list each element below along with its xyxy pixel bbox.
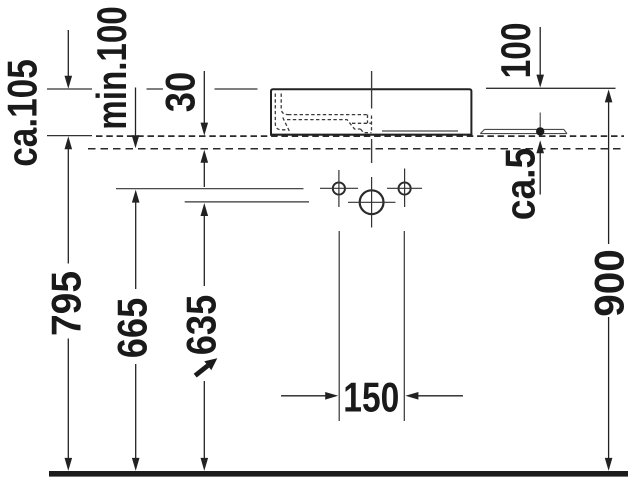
svg-text:min.100: min.100 bbox=[88, 6, 135, 130]
dimension 900: up arrow at rim line bbox=[605, 89, 613, 102]
extension line down to glue point bbox=[539, 113, 541, 128]
drain recess dashed detail bbox=[352, 122, 372, 124]
glued console panel bbox=[480, 129, 567, 133]
dimension 665 lower segment + floor arrow bbox=[135, 364, 137, 468]
small fixing hole left bbox=[333, 182, 345, 194]
floor line bbox=[49, 471, 628, 477]
bowl profile dashed: inner left wall bbox=[275, 94, 286, 130]
svg-text:ca.105: ca.105 bbox=[0, 59, 46, 167]
lower dashed worktop line bbox=[88, 148, 624, 150]
upper dashed worktop line bbox=[96, 135, 624, 137]
dimension ca.5 up arrow bbox=[536, 140, 544, 153]
150 dimension extension line right bbox=[403, 231, 405, 421]
basin back rim thin line bbox=[382, 130, 458, 132]
bowl floor upper dashed line bbox=[288, 114, 368, 116]
tap hole centre (large) bbox=[360, 190, 384, 214]
dimension 635: up arrow at faucet line 2 bbox=[201, 203, 209, 216]
150 right arrow bbox=[416, 395, 463, 397]
dimension ca.105 down arrow bbox=[67, 30, 69, 84]
svg-text:150: 150 bbox=[343, 373, 399, 420]
rim level reference line (left segments) bbox=[47, 88, 258, 90]
washbasin bottom edge bbox=[270, 134, 472, 136]
faucet holes reference line 2 bbox=[185, 201, 309, 203]
svg-text:795: 795 bbox=[43, 271, 90, 336]
svg-text:665: 665 bbox=[109, 298, 156, 359]
svg-text:635: 635 bbox=[178, 295, 225, 356]
bowl profile dashed: lower slope diagonal bbox=[283, 118, 290, 132]
dimension 635 lower segment + floor arrow bbox=[203, 381, 205, 468]
dimension 100 down arrow bbox=[539, 27, 541, 84]
dimension min.100 down arrow bbox=[135, 88, 137, 145]
faucet holes reference line 1 bbox=[116, 188, 304, 190]
150 left arrow bbox=[281, 395, 328, 397]
centre line of basin bbox=[371, 71, 373, 109]
svg-text:ca.5: ca.5 bbox=[497, 148, 544, 221]
dimension 665 line: up arrow at faucet line 1 bbox=[132, 190, 140, 203]
dimension 795 lower segment + floor arrow bbox=[67, 339, 69, 469]
right reference line (rim level) bbox=[486, 87, 616, 89]
svg-text:100: 100 bbox=[492, 22, 539, 78]
bowl profile dashed: outer left wall bbox=[281, 94, 288, 115]
150 dimension extension line left bbox=[338, 231, 340, 421]
dimension 30 down arrow bbox=[203, 71, 205, 132]
dimension 900 lower segment + floor arrow bbox=[608, 317, 610, 468]
dimension 635: up arrow at lower dashed line bbox=[201, 150, 209, 163]
dimension 795 line: up arrow at countertop bbox=[65, 136, 73, 149]
adjustable height arrow symbol bbox=[195, 358, 217, 375]
small fixing hole right bbox=[399, 182, 411, 194]
svg-text:30: 30 bbox=[157, 72, 204, 113]
glue point dot bbox=[536, 127, 544, 135]
washbasin outline bbox=[271, 89, 471, 135]
bowl floor lower dashed line bbox=[287, 120, 361, 129]
countertop tick line (left) bbox=[47, 135, 92, 137]
svg-text:900: 900 bbox=[586, 249, 633, 317]
